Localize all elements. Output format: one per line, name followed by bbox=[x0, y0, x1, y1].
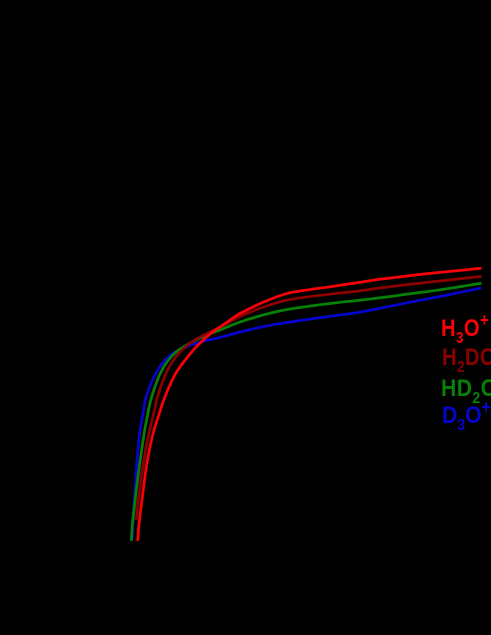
curve H2DO+ (dark red) bbox=[136, 276, 481, 520]
curve H3O+ (red) bbox=[138, 268, 482, 541]
curve HD2O+ (green) bbox=[131, 283, 481, 541]
curve D3O+ (blue) bbox=[132, 288, 481, 539]
legend label H3O+ (red) bbox=[441, 317, 489, 341]
legend label H2DO+ (dark red) bbox=[442, 346, 491, 370]
legend label HD2O+ (green) bbox=[441, 377, 491, 401]
legend label D3O+ (blue) bbox=[442, 404, 491, 428]
